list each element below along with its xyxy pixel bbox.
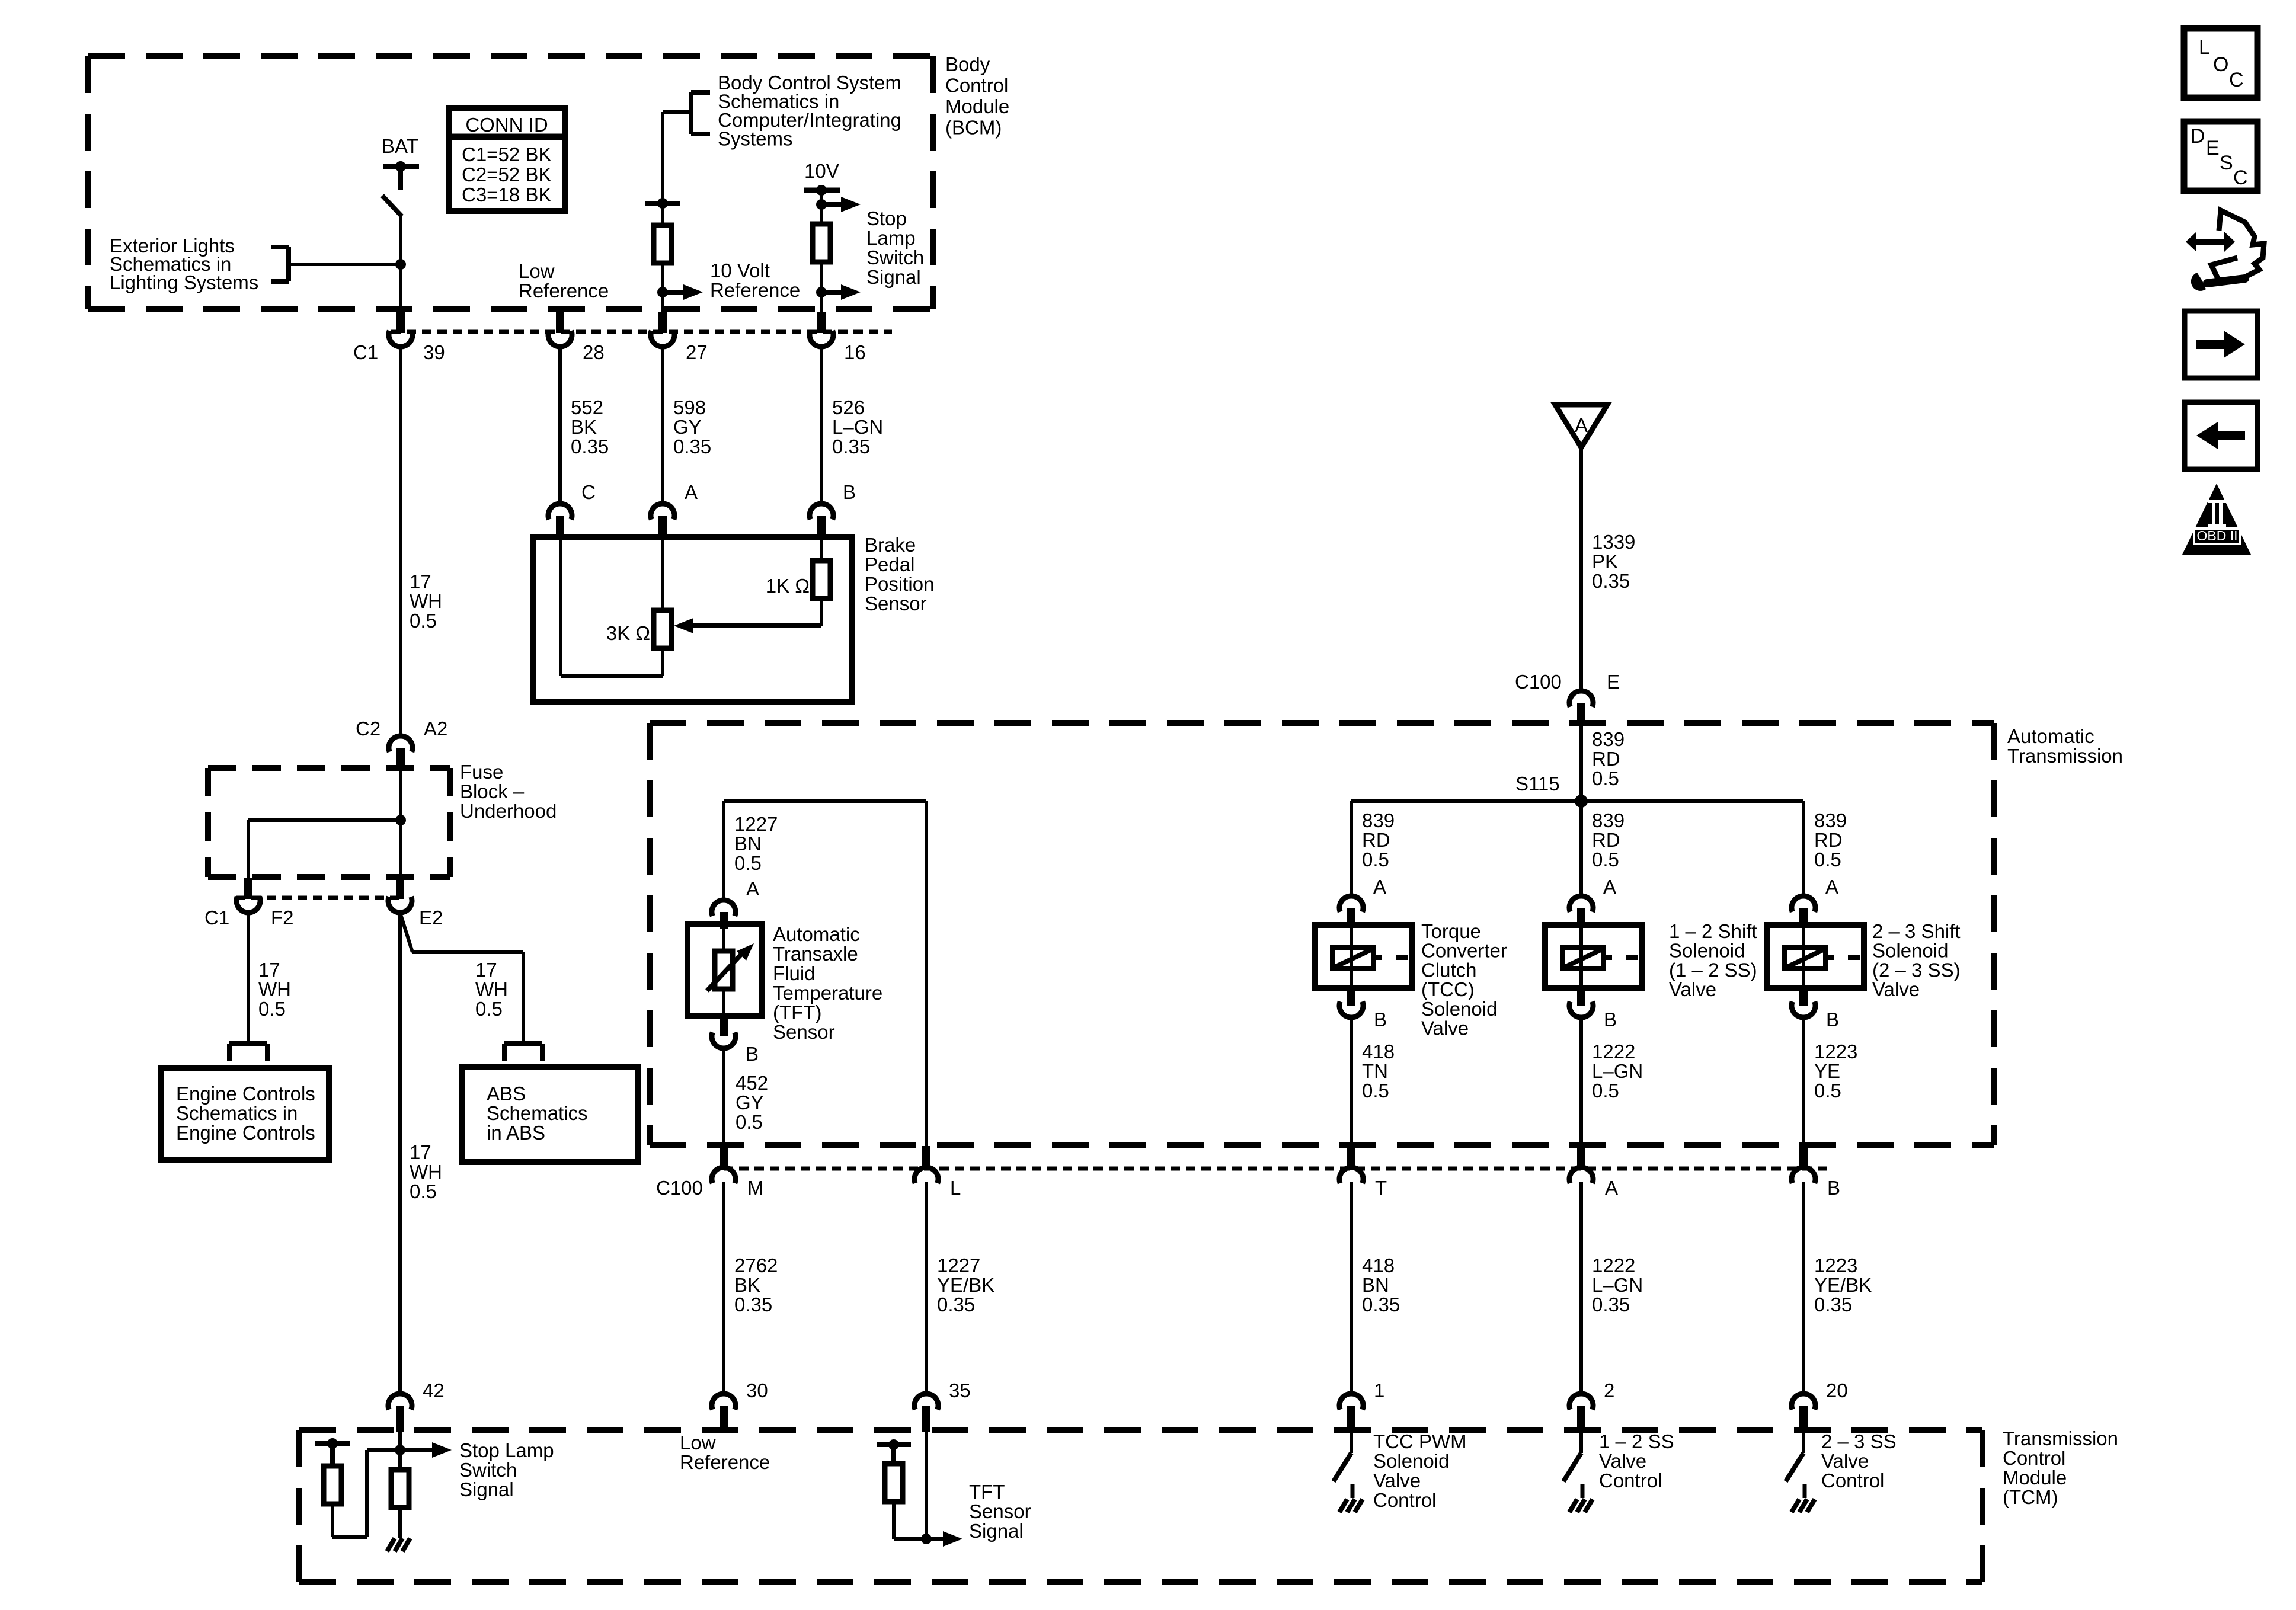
1-2 shift solenoid valve pin B connector (1569, 988, 1617, 1030)
svg-text:Torque: Torque (1421, 920, 1481, 942)
thermistor (TFT sensor element) (707, 943, 754, 991)
TCC solenoid valve pin B connector (1339, 988, 1387, 1030)
wire 839 RD 0.5 (C100 E to S115) (1581, 724, 1625, 801)
svg-text:Sensor: Sensor (865, 593, 927, 614)
component box: Brake Pedal Position Sensor (533, 537, 852, 702)
solenoid TCC solenoid valve box (1315, 925, 1412, 988)
label: 1 – 2 SS Valve Control (1599, 1430, 1674, 1491)
svg-text:552: 552 (571, 396, 603, 418)
svg-text:L: L (2199, 36, 2210, 59)
wire 418 BN 0.35 (C100 T to TCM 1) (1351, 1182, 1400, 1394)
wire 17 WH 0.5 (E2 to ABS) (400, 913, 523, 1044)
bracket: ABS link (504, 1044, 542, 1061)
svg-text:Clutch: Clutch (1421, 959, 1477, 981)
svg-text:16: 16 (844, 341, 866, 363)
svg-text:Valve: Valve (1872, 978, 1920, 1000)
svg-text:0.35: 0.35 (1592, 570, 1630, 592)
svg-text:D: D (2191, 125, 2205, 148)
1-2 shift solenoid valve pin A connector (1569, 876, 1616, 926)
resistor 1K (766, 561, 830, 598)
svg-text:1223: 1223 (1814, 1254, 1857, 1276)
BPPS pin B connector (810, 481, 856, 537)
1-2 SS valve control switch (1563, 1432, 1581, 1481)
svg-text:17: 17 (410, 1141, 431, 1163)
label: Stop Lamp Switch Signal (TCM) (459, 1439, 554, 1500)
svg-text:BN: BN (734, 833, 762, 854)
label: Transmission Control Module (TCM) (2003, 1427, 2118, 1508)
wire: BPPS internal B leg (820, 537, 823, 561)
wire 17 WH 0.5 (pin 39 to C2) (401, 347, 442, 736)
connector pin 39 (C1) (389, 311, 412, 347)
svg-text:17: 17 (410, 571, 431, 593)
svg-text:Body: Body (945, 53, 990, 75)
wire: S115 bus (1351, 799, 1803, 803)
svg-text:Engine Controls: Engine Controls (176, 1083, 315, 1105)
wire 1222 L-GN 0.35 (C100 A to TCM 2) (1581, 1182, 1643, 1394)
svg-text:Sensor: Sensor (773, 1021, 835, 1043)
svg-text:in ABS: in ABS (487, 1122, 545, 1144)
svg-text:L–GN: L–GN (832, 416, 883, 438)
svg-text:Lighting Systems: Lighting Systems (110, 271, 258, 293)
svg-text:2 – 3 Shift: 2 – 3 Shift (1872, 920, 1961, 942)
svg-text:2: 2 (1604, 1379, 1614, 1401)
svg-text:S: S (2220, 152, 2233, 174)
connector C1 row (BCM) dotted line (391, 330, 892, 334)
wire: R2 to pin 16 (820, 262, 823, 312)
svg-text:30: 30 (746, 1379, 768, 1401)
svg-text:A2: A2 (424, 718, 447, 740)
svg-text:C1=52 BK: C1=52 BK (462, 143, 551, 165)
wire corner: TFT A feed and low reference return (724, 801, 926, 1146)
svg-text:1222: 1222 (1592, 1254, 1635, 1276)
connector E2 stub (388, 878, 412, 913)
wire: TCM pin 35 internal (925, 1432, 928, 1539)
svg-text:526: 526 (832, 396, 865, 418)
svg-text:0.5: 0.5 (736, 1111, 763, 1133)
label C1 / pin 39 (353, 341, 445, 363)
svg-text:35: 35 (949, 1379, 971, 1401)
svg-text:Valve: Valve (1421, 1017, 1469, 1039)
svg-text:27: 27 (686, 341, 708, 363)
svg-text:YE/BK: YE/BK (937, 1274, 994, 1296)
label: Body Control Module (BCM) (945, 53, 1009, 139)
svg-text:B: B (1827, 1177, 1840, 1199)
svg-text:Reference: Reference (519, 280, 609, 302)
svg-text:Low: Low (519, 260, 555, 282)
svg-text:Sensor: Sensor (969, 1500, 1031, 1522)
svg-text:A: A (746, 878, 759, 900)
connector pin 16 (810, 312, 866, 363)
svg-text:OBD II: OBD II (2196, 528, 2237, 543)
table: CONN ID (449, 108, 565, 211)
label: Low Reference (TCM pin 30) (680, 1432, 770, 1473)
svg-text:Transmission: Transmission (2003, 1427, 2118, 1449)
svg-text:Reference: Reference (680, 1451, 770, 1473)
connector C100 pin T (1339, 1146, 1387, 1199)
svg-text:0.5: 0.5 (475, 998, 503, 1020)
svg-text:C: C (2233, 167, 2248, 189)
svg-text:BAT: BAT (382, 135, 418, 157)
svg-text:C2: C2 (356, 718, 380, 740)
reference box: ABS Schematics in ABS (462, 1067, 638, 1162)
connector C100 pin B (1792, 1146, 1840, 1199)
svg-text:WH: WH (258, 978, 291, 1000)
svg-text:E2: E2 (419, 907, 443, 929)
svg-text:YE/BK: YE/BK (1814, 1274, 1872, 1296)
wire: pin 27 internal (10 volt reference) (661, 112, 664, 225)
labels C1 / F2 / E2 (204, 907, 443, 929)
svg-text:Automatic: Automatic (2007, 725, 2094, 747)
svg-text:Module: Module (945, 95, 1009, 117)
splice S115 (1515, 773, 1588, 808)
svg-text:B: B (746, 1043, 759, 1065)
label: TFT Sensor Signal (969, 1481, 1031, 1542)
wire 1222 L–GN 0.5 (1-2 shift solenoid valve B to C100) (1581, 1017, 1643, 1164)
svg-text:Control: Control (945, 75, 1008, 97)
svg-text:0.35: 0.35 (734, 1294, 772, 1315)
bracket: Body Control System schematics link (663, 92, 710, 134)
svg-text:598: 598 (673, 396, 706, 418)
resistor R4 (TCM pin 42) (391, 1470, 409, 1507)
svg-text:Signal: Signal (459, 1478, 514, 1500)
svg-text:Stop: Stop (866, 207, 907, 229)
svg-text:Position: Position (865, 573, 934, 595)
svg-text:Control: Control (1599, 1470, 1662, 1491)
svg-text:(1 – 2 SS): (1 – 2 SS) (1669, 959, 1757, 981)
svg-text:1227: 1227 (937, 1254, 980, 1276)
icon: forward arrow box (2185, 311, 2257, 378)
svg-text:Valve: Valve (1599, 1450, 1646, 1472)
wire: BPPS internal C leg (559, 537, 562, 676)
icon: DESC box (2184, 121, 2257, 191)
label: Automatic Transaxle Fluid Temperature (TFT) Sensor (773, 923, 882, 1043)
2-3 SS valve control switch (1786, 1432, 1803, 1481)
power node 10V (804, 160, 840, 196)
svg-text:839: 839 (1592, 809, 1625, 831)
svg-text:10 Volt: 10 Volt (710, 260, 770, 281)
svg-text:E: E (2206, 137, 2220, 159)
svg-text:Reference: Reference (710, 279, 800, 301)
svg-text:L–GN: L–GN (1592, 1274, 1643, 1296)
svg-text:Signal: Signal (969, 1520, 1024, 1542)
svg-text:WH: WH (410, 590, 442, 612)
wire: BPPS internal A leg (661, 537, 664, 610)
connector F2 stub (236, 878, 260, 913)
resistor R1 (10V reference pull-up) (654, 225, 671, 263)
connector pin 28 (548, 312, 605, 363)
label: Fuse Block - Underhood (460, 761, 557, 822)
connector C100 row dotted line (724, 1167, 1831, 1171)
junction + arrow: Stop Lamp Switch Signal (TCM) (395, 1442, 452, 1458)
svg-text:0.35: 0.35 (1362, 1294, 1400, 1315)
svg-text:Valve: Valve (1373, 1470, 1421, 1491)
svg-text:L–GN: L–GN (1592, 1060, 1643, 1082)
TFT sensor pin A connector (712, 878, 759, 929)
svg-text:Valve: Valve (1821, 1450, 1869, 1472)
TCC solenoid valve pin A connector (1339, 876, 1386, 926)
svg-text:0.35: 0.35 (937, 1294, 975, 1315)
svg-text:Control: Control (2003, 1447, 2065, 1469)
2-3 shift solenoid valve pin B connector (1792, 988, 1839, 1030)
svg-text:1K Ω: 1K Ω (766, 575, 810, 597)
off-page triangle A (1555, 405, 1607, 447)
wire: 3K bottom loop (561, 648, 663, 676)
svg-text:A: A (1603, 876, 1616, 898)
connector C100 pin M (712, 1146, 763, 1199)
svg-text:Control: Control (1373, 1489, 1436, 1511)
svg-text:B: B (1374, 1009, 1387, 1030)
connector C100 pin L (914, 1146, 961, 1199)
svg-text:0.35: 0.35 (832, 436, 870, 457)
svg-text:Fluid: Fluid (773, 962, 816, 984)
svg-text:F2: F2 (271, 907, 294, 929)
svg-text:C1: C1 (353, 341, 378, 363)
connector row C1 (fuse block) dotted line (236, 896, 401, 900)
ground G1 (TCM) (387, 1538, 410, 1551)
module box: Fuse Block - Underhood dashed outline (208, 768, 450, 877)
connector C100 label (656, 1177, 703, 1199)
svg-text:0.35: 0.35 (1814, 1294, 1852, 1315)
label: 1227 BN 0.5 (734, 813, 778, 874)
icon: LOC box (2184, 28, 2257, 98)
svg-text:A: A (1605, 1177, 1618, 1199)
connector TCM pin 30 (712, 1379, 768, 1432)
svg-text:1227: 1227 (734, 813, 778, 835)
connector TCM pin 2 (1569, 1379, 1614, 1432)
svg-text:Lamp: Lamp (866, 227, 916, 249)
solenoid 2-3 shift solenoid valve box (1767, 925, 1864, 988)
svg-text:17: 17 (475, 959, 497, 981)
svg-text:17: 17 (258, 959, 280, 981)
ground (below TCC PWM solenoid valve control switch) (1339, 1484, 1363, 1512)
svg-text:M: M (747, 1177, 764, 1199)
junction in fuse block (395, 815, 406, 825)
TFT sensor pin B connector (712, 1016, 759, 1065)
svg-text:Solenoid: Solenoid (1872, 940, 1948, 962)
svg-text:0.5: 0.5 (258, 998, 286, 1020)
connector pin 27 (651, 312, 708, 363)
svg-text:C2=52 BK: C2=52 BK (462, 164, 551, 185)
svg-text:39: 39 (423, 341, 445, 363)
svg-text:Pedal: Pedal (865, 553, 914, 575)
svg-text:Switch: Switch (866, 247, 924, 268)
wire 839 RD 0.5 (S115 to 2-3 shift solenoid valve) (1803, 801, 1847, 896)
svg-text:0.5: 0.5 (1592, 849, 1619, 870)
icon: OBD II triangle (2182, 484, 2251, 555)
svg-text:RD: RD (1592, 829, 1620, 851)
svg-text:RD: RD (1362, 829, 1390, 851)
svg-text:GY: GY (673, 416, 702, 438)
svg-text:1 – 2 SS: 1 – 2 SS (1599, 1430, 1674, 1452)
svg-text:0.35: 0.35 (571, 436, 609, 457)
wire 17 WH 0.5 (E2 to TCM pin 42) (400, 913, 442, 1394)
svg-text:BK: BK (571, 416, 597, 438)
svg-text:RD: RD (1814, 829, 1843, 851)
icon: back arrow box (2185, 402, 2257, 469)
svg-text:CONN ID: CONN ID (465, 114, 548, 136)
svg-text:28: 28 (583, 341, 605, 363)
resistor R2 (stop lamp switch signal) (813, 224, 830, 262)
wire: R1 to pin 27 (661, 263, 664, 312)
svg-text:Schematics: Schematics (487, 1102, 588, 1124)
label: 2-3 Shift Solenoid (1872, 920, 1961, 1000)
svg-text:839: 839 (1814, 809, 1847, 831)
svg-text:0.35: 0.35 (1592, 1294, 1630, 1315)
label: 10 Volt Reference (710, 260, 800, 301)
svg-text:(2 – 3 SS): (2 – 3 SS) (1872, 959, 1961, 981)
wire 552 BK 0.35 (pin 28 to BPPS C) (560, 347, 609, 504)
2-3 shift solenoid valve pin A connector (1792, 876, 1838, 926)
label: Exterior Lights Schematics in Lighting Systems (110, 235, 258, 293)
svg-text:Block –: Block – (460, 780, 525, 802)
wire 2762 BK 0.35 (C100 M to TCM 30) (724, 1182, 778, 1394)
svg-text:0.5: 0.5 (734, 852, 762, 874)
svg-text:YE: YE (1814, 1060, 1840, 1082)
label: 2 – 3 SS Valve Control (1821, 1430, 1897, 1491)
label: Body Control System Schematics in Computer/Integrating Systems (718, 72, 901, 150)
wire 452 GY 0.5 (TFT B to C100 M) (724, 1048, 768, 1146)
wire: 10V to R2 (820, 190, 823, 224)
svg-text:(TFT): (TFT) (773, 1001, 821, 1023)
svg-text:Low: Low (680, 1432, 716, 1454)
svg-text:452: 452 (736, 1072, 768, 1094)
svg-text:E: E (1607, 671, 1620, 693)
power symbol BAT (382, 135, 419, 190)
svg-text:2 – 3 SS: 2 – 3 SS (1821, 1430, 1897, 1452)
connector C100 pin A (1569, 1146, 1618, 1199)
svg-text:1222: 1222 (1592, 1041, 1635, 1062)
svg-text:C1: C1 (204, 907, 229, 929)
svg-text:ABS: ABS (487, 1083, 526, 1105)
svg-text:C: C (581, 481, 596, 503)
svg-text:0.5: 0.5 (1592, 767, 1619, 789)
bracket: engine controls link (229, 1044, 267, 1061)
wire: TCM pin 42 internal (398, 1432, 402, 1470)
svg-text:Transmission: Transmission (2007, 745, 2123, 767)
svg-text:Temperature: Temperature (773, 982, 882, 1004)
svg-text:L: L (950, 1177, 961, 1199)
svg-text:0.5: 0.5 (1814, 849, 1841, 870)
label: Automatic Transmission (2007, 725, 2123, 767)
connector TCM pin 42 (388, 1379, 445, 1432)
svg-text:Solenoid: Solenoid (1421, 998, 1497, 1020)
svg-text:42: 42 (423, 1379, 445, 1401)
svg-text:TN: TN (1362, 1060, 1388, 1082)
solenoid coil (2-3 shift solenoid valve) (1785, 948, 1860, 968)
ground (below 1-2 SS valve control switch) (1569, 1484, 1593, 1512)
svg-text:WH: WH (410, 1161, 442, 1183)
svg-text:A: A (1373, 876, 1386, 898)
svg-text:3K Ω: 3K Ω (606, 622, 650, 644)
svg-text:Transaxle: Transaxle (773, 943, 858, 965)
svg-text:RD: RD (1592, 748, 1620, 770)
svg-text:TFT: TFT (969, 1481, 1005, 1503)
wire 1223 YE/BK 0.35 (C100 B to TCM 20) (1803, 1182, 1872, 1394)
connector C100 pin E (1515, 671, 1620, 724)
connector C2 pin A2 (356, 718, 447, 770)
svg-text:TCC PWM: TCC PWM (1373, 1430, 1467, 1452)
junction + arrow: 10 Volt Reference (657, 284, 703, 300)
svg-text:Schematics in: Schematics in (176, 1102, 298, 1124)
svg-text:Valve: Valve (1669, 978, 1716, 1000)
svg-text:(TCM): (TCM) (2003, 1486, 2058, 1508)
svg-text:Underhood: Underhood (460, 800, 557, 822)
svg-text:0.5: 0.5 (1362, 849, 1389, 870)
label: Stop Lamp Switch Signal (866, 207, 924, 288)
label: Brake Pedal Position Sensor (865, 534, 934, 614)
wire 1339 PK 0.35 (triangle A to C100 E) (1581, 447, 1635, 691)
svg-text:10V: 10V (804, 160, 839, 182)
BPPS pin A connector (651, 481, 698, 537)
svg-text:Brake: Brake (865, 534, 916, 556)
svg-text:GY: GY (736, 1092, 764, 1113)
junction: exterior lights tap (395, 259, 406, 270)
resistor R5 (TFT pull-up) (885, 1464, 903, 1502)
module box: Automatic Transmission dashed outline (650, 723, 1994, 1145)
switch SW1 (brake switch blade) (382, 196, 402, 216)
junction tick on pin 27 wire (645, 198, 680, 209)
svg-text:1339: 1339 (1592, 531, 1635, 553)
label: Low Reference (pin 28) (519, 260, 609, 302)
svg-text:A: A (685, 481, 698, 503)
resistor 3K (potentiometer) (606, 610, 671, 648)
svg-text:A: A (1825, 876, 1838, 898)
svg-text:418: 418 (1362, 1254, 1395, 1276)
svg-text:B: B (1604, 1009, 1617, 1030)
svg-text:BN: BN (1362, 1274, 1389, 1296)
svg-text:Module: Module (2003, 1467, 2067, 1489)
module box: Body Control Module (BCM) dashed outline (88, 56, 933, 309)
solenoid coil (TCC solenoid valve) (1332, 948, 1408, 968)
svg-text:Automatic: Automatic (773, 923, 860, 945)
svg-text:PK: PK (1592, 550, 1618, 572)
label: 1-2 Shift Solenoid (1669, 920, 1757, 1000)
connector TCM pin 35 (914, 1379, 971, 1432)
wire 839 RD 0.5 (S115 to TCC solenoid valve) (1351, 801, 1395, 896)
wire: R5 loop to TFT signal node (894, 1502, 926, 1539)
BPPS pin C connector (548, 481, 596, 537)
reference box: Engine Controls Schematics in Engine Controls (161, 1068, 329, 1160)
wire: switch to pin 39 (399, 216, 402, 312)
svg-text:Solenoid: Solenoid (1669, 940, 1745, 962)
wire: R3 loop to signal node (332, 1450, 400, 1537)
wire 1223 YE 0.5 (2-3 shift solenoid valve B to C100) (1803, 1017, 1857, 1164)
svg-text:Solenoid: Solenoid (1373, 1450, 1449, 1472)
wire: fuse block internal vertical (399, 770, 402, 878)
svg-text:T: T (1375, 1177, 1387, 1199)
svg-text:839: 839 (1592, 728, 1625, 750)
label: Torque Converter Clutch (TCC) Solenoid Valve (1421, 920, 1507, 1039)
wire 17 WH 0.5 (F2 to engine controls) (248, 913, 291, 1044)
svg-text:Signal: Signal (866, 266, 921, 288)
wire 839 RD 0.5 (S115 to 1-2 shift solenoid valve) (1581, 801, 1625, 896)
ground (below 2-3 SS valve control switch) (1792, 1484, 1815, 1512)
svg-text:(TCC): (TCC) (1421, 978, 1475, 1000)
TCM internal: stop lamp pull-up tick (315, 1438, 350, 1466)
svg-text:Stop Lamp: Stop Lamp (459, 1439, 554, 1461)
svg-text:B: B (843, 481, 856, 503)
svg-text:Switch: Switch (459, 1459, 517, 1481)
svg-text:2762: 2762 (734, 1254, 778, 1276)
wire 1227 YE/BK 0.35 (C100 L to TCM 35) (926, 1182, 994, 1394)
wiper arrow (1K to 3K) (674, 598, 821, 633)
svg-text:WH: WH (475, 978, 508, 1000)
svg-text:0.5: 0.5 (410, 610, 437, 632)
wire: fuse block internal branch (248, 820, 401, 878)
svg-text:Systems: Systems (718, 128, 793, 150)
svg-text:1: 1 (1374, 1379, 1384, 1401)
svg-text:20: 20 (1826, 1379, 1848, 1401)
